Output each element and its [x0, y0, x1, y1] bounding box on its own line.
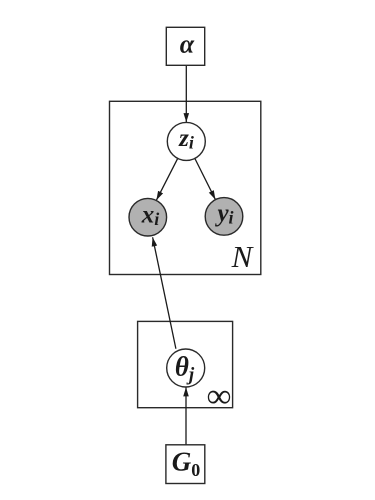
node x_i (observed)	[129, 198, 167, 236]
wire alpha->z_i	[185, 65, 187, 122]
wire G0->theta_j	[185, 387, 187, 445]
svg-text:α: α	[180, 30, 195, 59]
plate N (outer rectangle)	[110, 101, 261, 274]
wire theta_j->x_i	[153, 237, 176, 349]
node y_i (observed)	[205, 198, 243, 236]
node theta_j	[167, 349, 205, 387]
node G0 (base measure box)	[166, 445, 205, 484]
plate infinity (lower rectangle)	[138, 321, 233, 407]
node alpha (hyperparameter box)	[166, 27, 204, 65]
label N	[231, 239, 255, 274]
svg-text:∞: ∞	[207, 378, 231, 415]
svg-text:N: N	[231, 239, 255, 274]
node z_i	[167, 122, 205, 160]
label infinity	[207, 378, 231, 415]
wire z_i->y_i	[195, 159, 216, 200]
wire z_i->x_i	[156, 158, 177, 200]
